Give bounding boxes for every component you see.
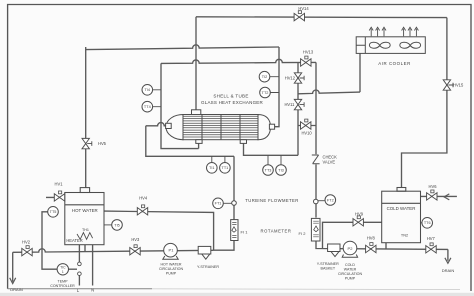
svg-text:HV8: HV8 [367, 236, 376, 241]
svg-text:FI 2: FI 2 [299, 231, 307, 236]
svg-text:HV13: HV13 [303, 50, 314, 55]
svg-text:PUMP: PUMP [166, 272, 177, 276]
svg-text:TT5: TT5 [50, 210, 57, 214]
svg-text:TN2: TN2 [401, 234, 408, 238]
svg-text:HOT WATER: HOT WATER [72, 208, 98, 213]
svg-text:HV2: HV2 [22, 239, 31, 244]
svg-text:TI5: TI5 [114, 223, 120, 227]
svg-text:1: 1 [62, 270, 64, 274]
svg-text:TH1: TH1 [82, 228, 89, 232]
svg-text:N: N [91, 287, 94, 292]
svg-text:GLASS HEAT EXCHANGER: GLASS HEAT EXCHANGER [201, 100, 264, 105]
svg-text:HV11: HV11 [284, 102, 295, 107]
svg-text:AIR COOLER: AIR COOLER [378, 61, 411, 66]
svg-text:CIRCULATION: CIRCULATION [338, 272, 362, 276]
svg-text:HV4: HV4 [139, 196, 148, 201]
svg-text:HV6: HV6 [429, 184, 438, 189]
svg-text:TI2: TI2 [262, 75, 268, 79]
svg-text:HV15: HV15 [453, 83, 464, 88]
svg-text:HV9: HV9 [355, 211, 364, 216]
svg-text:TI1: TI1 [209, 166, 215, 170]
svg-text:HOT WATER: HOT WATER [160, 262, 181, 266]
svg-text:COLD WATER: COLD WATER [387, 206, 416, 211]
svg-text:VALVE: VALVE [323, 160, 336, 165]
svg-text:TT2: TT2 [262, 91, 269, 95]
svg-text:HV5: HV5 [98, 141, 107, 146]
svg-text:DRAIN: DRAIN [442, 268, 455, 273]
svg-text:HV12: HV12 [285, 76, 296, 81]
svg-text:Y-STRAINER: Y-STRAINER [197, 265, 219, 269]
svg-text:SHELL & TUBE: SHELL & TUBE [213, 94, 248, 99]
svg-text:WATER: WATER [344, 268, 357, 272]
svg-text:HV14: HV14 [298, 6, 309, 11]
svg-text:HV1: HV1 [55, 182, 64, 187]
svg-text:DRAIN: DRAIN [10, 287, 23, 292]
svg-text:TI3: TI3 [278, 168, 284, 172]
svg-text:TT4: TT4 [144, 105, 151, 109]
svg-text:TURBINE FLOWMETER: TURBINE FLOWMETER [245, 198, 298, 203]
svg-text:HV3: HV3 [131, 237, 140, 242]
svg-text:FT2: FT2 [327, 198, 334, 202]
svg-text:ROTAMETER: ROTAMETER [261, 229, 292, 234]
svg-text:TT6: TT6 [424, 221, 431, 225]
svg-text:HEATER: HEATER [66, 238, 82, 243]
svg-text:P1: P1 [169, 248, 175, 253]
svg-text:HV7: HV7 [427, 236, 436, 241]
svg-text:TT3: TT3 [265, 168, 272, 172]
svg-text:COLD: COLD [345, 263, 355, 267]
svg-text:TI4: TI4 [145, 88, 151, 92]
svg-text:P2: P2 [348, 246, 354, 251]
svg-text:PUMP: PUMP [345, 276, 356, 280]
svg-text:FT1: FT1 [215, 202, 222, 206]
svg-text:BASKET: BASKET [321, 266, 336, 270]
svg-text:TT1: TT1 [222, 166, 229, 170]
svg-text:FI 1: FI 1 [241, 229, 249, 234]
svg-text:CONTROLLER: CONTROLLER [50, 284, 75, 288]
svg-text:Y-STRAINER: Y-STRAINER [317, 262, 339, 266]
svg-text:HV10: HV10 [301, 130, 312, 135]
svg-text:CIRCULATION: CIRCULATION [159, 267, 183, 271]
